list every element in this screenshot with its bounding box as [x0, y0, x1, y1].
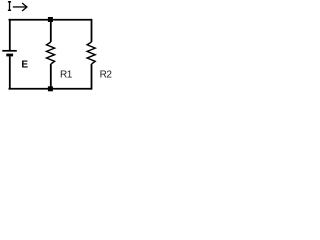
wire top [9, 19, 93, 21]
wire left lower (battery to bottom) [9, 57, 11, 90]
junction node top [48, 17, 53, 22]
wire left upper (to battery) [9, 19, 11, 50]
wire bottom [9, 88, 93, 90]
svg-text:E: E [21, 60, 28, 71]
wire right lower [91, 64, 93, 90]
battery E bottom plate [6, 54, 13, 57]
svg-text:R1: R1 [60, 69, 73, 80]
junction node bottom [48, 86, 53, 91]
resistor R1 zigzag [47, 42, 55, 64]
wire R1 branch top [50, 19, 52, 42]
wire right upper [91, 19, 93, 42]
resistor R2 zigzag [87, 42, 95, 64]
wire R1 branch bottom [50, 64, 52, 89]
battery E top plate [2, 50, 16, 52]
svg-text:R2: R2 [100, 69, 113, 80]
current arrow [13, 3, 27, 11]
current label I [8, 1, 11, 11]
